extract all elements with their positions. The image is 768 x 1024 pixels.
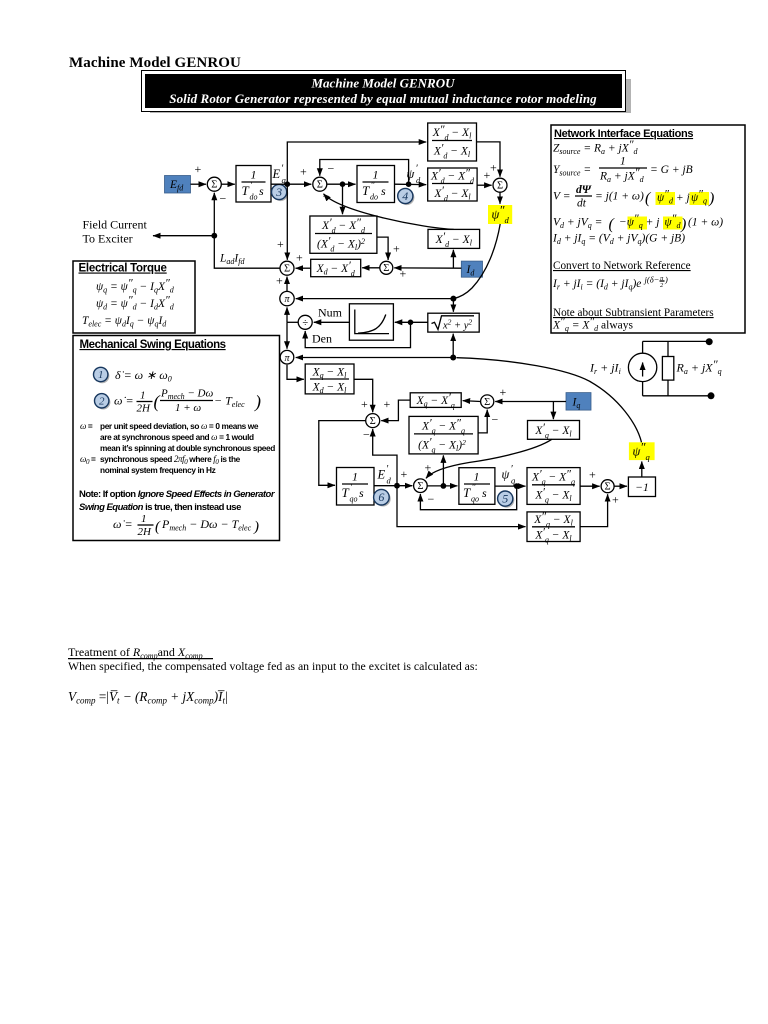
wire S2 to integrator T''do with node — [327, 181, 356, 187]
svg-text:+: + — [589, 468, 596, 482]
svg-text:−: − — [323, 189, 330, 203]
wire node A to multiplier P1 — [296, 298, 454, 300]
svg-text:= j(1 + ω): = j(1 + ω) — [595, 191, 644, 203]
svg-text:Ysource =: Ysource = — [553, 164, 591, 178]
svg-text:2H: 2H — [138, 526, 153, 538]
svg-text:): ) — [708, 190, 714, 207]
svg-text:+: + — [300, 165, 307, 179]
svg-text:mean it’s spinning at double s: mean it’s spinning at double synchronous… — [100, 443, 275, 453]
svg-text:+: + — [400, 267, 407, 281]
final equation — [113, 513, 259, 538]
svg-text:ψ″d + j: ψ″d + j — [657, 189, 690, 206]
svg-text:Σ: Σ — [484, 397, 490, 408]
svg-text:d: d — [416, 175, 421, 185]
svg-text:δ̇ = ω ∗ ω0: δ̇ = ω ∗ ω0 — [115, 368, 172, 384]
svg-text:− Telec: − Telec — [214, 394, 245, 410]
wire Id to S3 — [394, 267, 461, 281]
svg-text:+: + — [384, 397, 391, 411]
wire Sd to psi''d output — [499, 192, 501, 204]
svg-text:dΨ: dΨ — [576, 184, 592, 196]
banner outer frame — [142, 71, 626, 112]
label E'q — [272, 164, 287, 186]
curve psi''d to node A — [453, 224, 500, 299]
svg-text:′: ′ — [281, 164, 284, 175]
saturation function block — [349, 304, 393, 340]
block -1 — [628, 477, 655, 497]
svg-text:5: 5 — [502, 491, 508, 505]
block X'd-Xl — [428, 229, 480, 249]
svg-text:do: do — [370, 193, 378, 202]
TORQUE-MIDDLE — [276, 224, 500, 412]
feedback curve X'd-Xl to S2 bottom — [323, 189, 454, 229]
svg-text:Telec = ψdIq − ψqId: Telec = ψdIq − ψqId — [82, 315, 167, 329]
svg-text:+: + — [277, 237, 284, 251]
eq V = dpsi/dt — [553, 184, 714, 210]
svg-text:ψq = ψ″q − IqX″d: ψq = ψ″q − IqX″d — [96, 278, 175, 295]
svg-text:qo: qo — [471, 495, 479, 504]
top node — [706, 338, 713, 345]
wire node B up to sqrt bottom — [452, 334, 454, 358]
current source — [628, 341, 656, 395]
svg-text:E: E — [377, 468, 386, 482]
svg-text:1: 1 — [474, 470, 480, 484]
bottom treatment text — [68, 645, 478, 706]
wire Xq-X'q out to S5 right — [381, 400, 410, 421]
svg-text:): ) — [254, 392, 261, 413]
wire block out to S5 top — [354, 379, 373, 412]
wire T'qo to S7 with node E'd — [374, 467, 412, 489]
summer S8 — [601, 480, 619, 507]
svg-text:ψd = ψ″d − IdX″d: ψd = ψ″d − IdX″d — [96, 295, 175, 312]
wire S8 to -1 block — [614, 485, 627, 487]
svg-text:ω =: ω = — [80, 421, 93, 431]
svg-text:nominal system frequency in Hz: nominal system frequency in Hz — [100, 465, 216, 475]
eq Vd+jVq — [553, 213, 723, 233]
eq Ir+jIi — [552, 275, 668, 292]
wire P2 down to block Xq-Xl/Xd-Xl — [287, 365, 304, 380]
block (X'q-X''q)/(X'q-Xl)^2 — [409, 416, 478, 454]
svg-text:1: 1 — [352, 470, 358, 484]
svg-text:): ) — [664, 275, 668, 285]
svg-text:Mechanical Swing Equations: Mechanical Swing Equations — [80, 339, 226, 351]
summer S2 — [313, 177, 327, 191]
svg-text:+: + — [490, 161, 497, 175]
svg-text:+: + — [393, 242, 400, 256]
wire S4 output to node (Lad Ifd) — [214, 236, 280, 269]
svg-text:(: ( — [609, 216, 616, 233]
wire Xd2 block to S3 top — [377, 237, 400, 260]
label field current to exciter — [83, 218, 148, 246]
electrical torque box — [73, 261, 195, 333]
block 1/T'do s — [236, 166, 271, 203]
wire node up to S1 minus — [214, 192, 226, 236]
svg-text:do: do — [250, 193, 258, 202]
wire node down into block Xd2 — [342, 184, 344, 214]
label E'd — [377, 464, 392, 486]
svg-text:Machine Model GENROU: Machine Model GENROU — [310, 75, 455, 90]
wire -1 up to psi''q — [641, 462, 643, 478]
svg-text:Ir + jIi: Ir + jIi — [589, 361, 621, 377]
svg-text:+: + — [401, 467, 408, 481]
svg-text:s: s — [259, 184, 264, 198]
multiplier P1 — [280, 291, 294, 305]
svg-text:Vcomp =|V̅t − (Rcomp + jXcomp): Vcomp =|V̅t − (Rcomp + jXcomp)I̅t| — [68, 689, 228, 706]
svg-text:1: 1 — [620, 156, 626, 168]
svg-text:′: ′ — [386, 464, 389, 475]
wire top block to summer Sd — [477, 142, 501, 177]
svg-text:1: 1 — [251, 168, 257, 182]
svg-text:qo: qo — [350, 495, 358, 504]
svg-text:+: + — [500, 385, 507, 399]
svg-text:−ψ″q + j: −ψ″q + j — [619, 213, 659, 230]
svg-text:−: − — [492, 413, 499, 427]
svg-text:Pmech − Dω: Pmech − Dω — [160, 388, 213, 402]
svg-text:Zsource = Ra + jX″d: Zsource = Ra + jX″d — [553, 139, 639, 156]
wire Den path from node down and into divider bottom — [305, 322, 410, 347]
wire S6 to Xq-X'q block — [463, 400, 481, 403]
svg-text:Field Current: Field Current — [83, 218, 148, 232]
svg-text:3: 3 — [275, 185, 282, 199]
circled 4 — [398, 188, 415, 205]
svg-text:Vd + jVq =: Vd + jVq = — [553, 217, 602, 231]
svg-text:): ) — [680, 216, 686, 233]
svg-text:ψ: ψ — [407, 167, 415, 181]
block (X'q-X''q)/(X'q-Xl) — [527, 468, 580, 505]
wire S1 to integrator T'do — [221, 183, 235, 185]
block (X''d-Xl)/(X'd-Xl) — [428, 123, 477, 161]
svg-text:ω0 =: ω0 = — [80, 454, 96, 466]
svg-text:Σ: Σ — [370, 416, 376, 427]
svg-text:+: + — [425, 461, 432, 475]
block (X'd-X''d)/(X'd-Xl)^2 — [310, 216, 377, 254]
svg-text:T: T — [342, 485, 350, 500]
circled 5 — [498, 491, 515, 508]
svg-text:+: + — [612, 493, 619, 507]
svg-text:Id + jIq = (Vd + jVq)(G + jB): Id + jIq = (Vd + jVq)(G + jB) — [552, 233, 685, 247]
svg-text:Σ: Σ — [605, 482, 611, 493]
wire Xd-X'd to S4 — [296, 251, 311, 269]
wire E'q node down to summer S4 — [277, 184, 287, 260]
svg-text:Note: If option Ignore Speed E: Note: If option Ignore Speed Effects in … — [79, 489, 276, 500]
svg-text:Solid Rotor Generator represen: Solid Rotor Generator represented by equ… — [169, 91, 597, 106]
svg-text:−: − — [220, 192, 227, 206]
wire to exciter — [153, 235, 214, 237]
wire node up to Xq2 block bottom — [442, 455, 444, 486]
svg-text:LadIfd: LadIfd — [219, 253, 245, 267]
label psi'q — [502, 464, 517, 486]
svg-text:1: 1 — [140, 390, 146, 402]
block (Xq-Xl)/(Xd-Xl) — [305, 364, 354, 395]
summer S4 — [280, 261, 294, 275]
input Iq — [566, 393, 591, 411]
wire saturation to divider Num — [314, 306, 350, 323]
svg-text:j(δ−: j(δ− — [644, 275, 660, 285]
svg-text:s: s — [359, 486, 364, 500]
wire sqrt out to saturation block with node — [395, 320, 428, 326]
node B — [450, 355, 456, 361]
wire E'd node down to bottom block — [397, 486, 526, 527]
block sqrt(x^2+y^2) — [428, 313, 479, 332]
svg-text:1: 1 — [98, 369, 104, 381]
curve psi''q to node B — [457, 358, 642, 443]
summer S3 — [380, 261, 393, 274]
svg-text:4: 4 — [402, 189, 408, 203]
svg-text:1: 1 — [141, 513, 147, 525]
block 1/T''qo s — [459, 468, 495, 505]
svg-text:(: ( — [154, 392, 161, 413]
svg-text:+: + — [276, 274, 283, 288]
wire E'q node up to top block — [287, 142, 426, 184]
svg-text:−: − — [428, 492, 435, 506]
svg-text:are at synchronous speed and ω: are at synchronous speed and ω = 1 would — [100, 432, 254, 442]
svg-text:X″q = X″d always: X″q = X″d always — [552, 316, 634, 333]
svg-text:When specified, the compensate: When specified, the compensated voltage … — [68, 659, 478, 673]
svg-text:+: + — [484, 168, 491, 182]
equation omega-dot — [114, 388, 261, 415]
circled 3 — [272, 184, 289, 201]
wire mid block to summer Sd — [477, 161, 497, 186]
output psi''q — [629, 441, 655, 463]
svg-text:+: + — [296, 251, 303, 265]
circled 2 — [95, 394, 111, 410]
svg-text:Σ: Σ — [417, 481, 423, 492]
svg-text:Ra + jX″q: Ra + jX″q — [676, 357, 722, 376]
svg-text:): ) — [253, 519, 259, 535]
svg-text:d: d — [387, 476, 392, 486]
wire S5 out to integrator T'qo — [319, 421, 366, 486]
wire node B to multiplier P2 — [296, 357, 454, 359]
eq Ysource — [553, 156, 693, 185]
svg-text:2: 2 — [99, 396, 105, 408]
block X'q-Xl — [528, 421, 580, 441]
circled 6 — [374, 489, 391, 506]
wire node A down to sqrt block — [452, 299, 454, 312]
svg-text:T: T — [242, 183, 250, 198]
svg-text:T: T — [362, 183, 370, 198]
summer S5 — [363, 397, 391, 442]
wire S3 to Xd-X'd — [362, 267, 380, 269]
svg-text:Swing Equation is true, then i: Swing Equation is true, then instead use — [79, 502, 241, 513]
block (X'd-X''d)/(X'd-Xl) — [428, 168, 477, 204]
wire E'd node up to S5 bottom — [373, 429, 397, 486]
block (X''q-Xl)/(X'q-Xl) — [527, 511, 580, 545]
svg-text:Machine Model GENROU: Machine Model GENROU — [69, 55, 241, 71]
svg-text:+: + — [361, 397, 368, 411]
svg-text:Den: Den — [312, 332, 332, 346]
wire P1 to S4 bottom — [276, 274, 287, 292]
svg-text:2: 2 — [660, 282, 664, 289]
mechanical swing box — [73, 336, 280, 541]
wire divider out to P1 and P2 — [287, 307, 298, 348]
resistor Ra+jX''q — [662, 341, 673, 395]
svg-text:s: s — [482, 486, 487, 500]
bottom wire — [643, 395, 711, 397]
svg-text:Network Interface Equations: Network Interface Equations — [554, 128, 693, 140]
block 1/T'qo s — [337, 468, 375, 506]
svg-text:Σ: Σ — [211, 180, 217, 191]
svg-text:T: T — [463, 485, 471, 500]
svg-text:Ir + jIi = (Id + jIq)e: Ir + jIi = (Id + jIq)e — [552, 278, 641, 292]
wire block to summer S2 with node E'q — [271, 165, 311, 188]
svg-text:s: s — [381, 184, 386, 198]
input Efd — [165, 176, 191, 194]
summer Sd — [493, 178, 507, 192]
wire T''do to block Xd3 with node psi'd — [395, 181, 427, 187]
block Xq-X'q — [410, 392, 461, 410]
wire S7 to integrator T''qo with node — [427, 483, 457, 489]
svg-text:+: + — [195, 162, 202, 176]
svg-text:Σ: Σ — [497, 181, 503, 192]
node below S1 — [211, 233, 217, 239]
omega explanation — [80, 421, 275, 475]
svg-text:Note about Subtransient Parame: Note about Subtransient Parameters — [553, 307, 714, 319]
svg-text:Pmech − Dω − Telec: Pmech − Dω − Telec — [161, 517, 252, 533]
svg-text:= G + jB: = G + jB — [650, 164, 693, 176]
banner black box — [145, 74, 622, 108]
wire bottom block to S8 bottom — [580, 494, 608, 526]
block 1/T''do s — [357, 166, 395, 203]
wire Iq tap down to X'q-Xl — [552, 402, 554, 420]
svg-text:Num: Num — [318, 306, 343, 320]
svg-text:′: ′ — [511, 464, 514, 475]
summer S7 — [414, 479, 435, 506]
note text — [79, 489, 276, 513]
svg-text:Xd − Xl: Xd − Xl — [312, 382, 348, 396]
svg-text:÷: ÷ — [302, 318, 308, 329]
summer S1 — [207, 177, 221, 191]
svg-text:Ra + jX″d: Ra + jX″d — [599, 167, 645, 184]
block Xd-X'd — [311, 259, 361, 278]
svg-text:Xq − Xl: Xq − Xl — [312, 367, 348, 381]
wire Efd to summer S1 — [191, 162, 207, 184]
svg-text:ψ: ψ — [502, 468, 510, 482]
banner shadow — [150, 79, 631, 113]
svg-text:per unit speed deviation, so ω: per unit speed deviation, so ω = 0 means… — [100, 421, 259, 431]
svg-text:To Exciter: To Exciter — [83, 232, 133, 246]
svg-text:6: 6 — [378, 490, 384, 504]
bottom node — [708, 392, 715, 399]
output psi''d — [488, 204, 512, 226]
input Id — [461, 261, 482, 277]
norton equivalent circuit — [589, 338, 722, 399]
circled 1 — [94, 367, 110, 383]
svg-text:1 + ω: 1 + ω — [175, 402, 201, 414]
svg-text:Σ: Σ — [383, 263, 389, 274]
svg-text:ω̇ =: ω̇ = — [113, 517, 133, 531]
svg-text:x2 + y2: x2 + y2 — [442, 318, 472, 332]
svg-text:Convert to Network Reference: Convert to Network Reference — [553, 260, 691, 272]
wire Iq to S6 — [495, 401, 566, 403]
svg-text:1: 1 — [373, 168, 379, 182]
svg-text:Σ: Σ — [284, 264, 290, 275]
wire block to S8 — [580, 468, 600, 487]
wire Id tap up to X'd-Xl block — [452, 250, 454, 268]
svg-text:′: ′ — [416, 164, 419, 175]
svg-text:−: − — [363, 428, 370, 442]
svg-text:2H: 2H — [137, 403, 152, 415]
D-AXIS-CHAIN — [83, 123, 513, 281]
svg-text:ω̇ =: ω̇ = — [114, 394, 134, 408]
psi'q feedback wire to S7 bottom — [420, 486, 516, 510]
svg-text:(: ( — [155, 519, 161, 535]
Q-AXIS-CHAIN — [319, 358, 656, 545]
wire Xq2 block out up to S6 bottom — [478, 410, 487, 433]
svg-text:(: ( — [645, 190, 652, 207]
heading treatment — [68, 658, 213, 660]
svg-text:V =: V = — [553, 191, 570, 203]
network interface equations box — [551, 125, 745, 333]
svg-text:Electrical Torque: Electrical Torque — [79, 263, 167, 275]
svg-text:−: − — [328, 162, 335, 176]
svg-text:E: E — [272, 167, 281, 181]
wire T''qo to block with node psi'q — [495, 483, 526, 489]
summer S6 — [481, 385, 507, 427]
svg-text:(1 + ω): (1 + ω) — [688, 217, 723, 229]
svg-text:dt: dt — [577, 198, 587, 210]
multiplier P2 — [280, 350, 294, 364]
node A — [450, 296, 456, 302]
top wire — [643, 340, 710, 342]
divider circle — [298, 315, 312, 329]
feedback wire psi'd node to S2 top — [320, 160, 409, 184]
label psi'd — [407, 164, 422, 186]
curve X'q-Xl to S7 top — [425, 439, 552, 478]
svg-text:−1: −1 — [635, 482, 649, 494]
